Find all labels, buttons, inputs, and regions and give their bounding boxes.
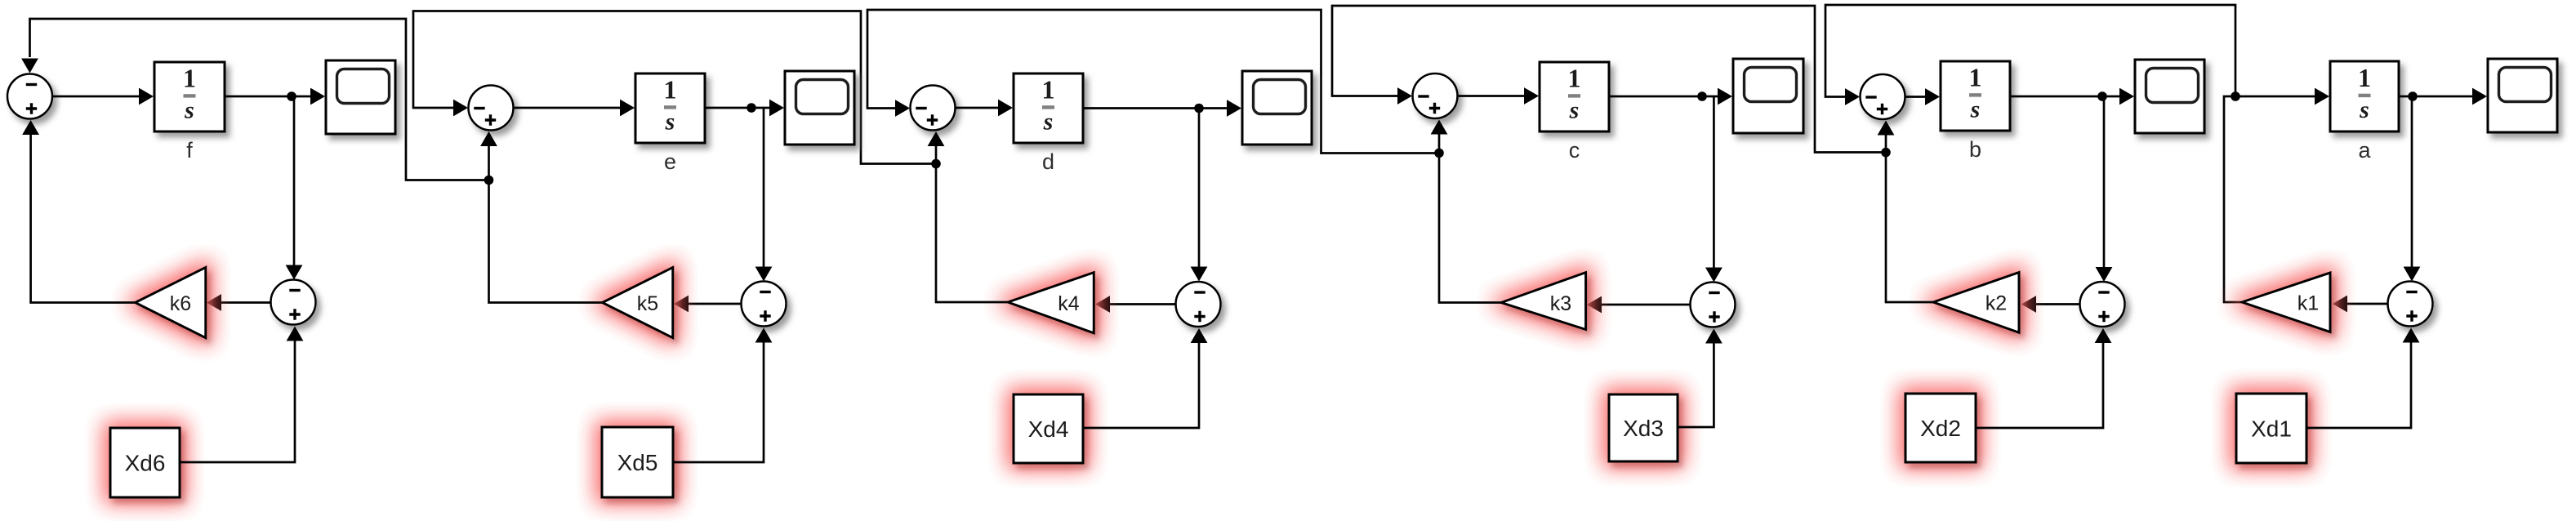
integrator 1/s a <box>2330 61 2399 131</box>
arrowhead into gain k4 <box>1095 296 1110 313</box>
svg-text:1: 1 <box>183 64 196 93</box>
wire sum2 A to gain k1 <box>2344 303 2388 305</box>
arrowhead into scope e <box>769 100 784 117</box>
arrowhead into integrator f <box>139 88 154 105</box>
wire sum E to integrator e <box>514 107 622 109</box>
wire sum2 F to gain k6 <box>219 301 271 304</box>
arrowhead into sum2 B top <box>2096 267 2113 282</box>
gain k3 <box>1501 273 1586 330</box>
wire branch down to sum2 C <box>1713 96 1715 269</box>
arrowhead into sum C bottom <box>1431 120 1448 135</box>
svg-text:1: 1 <box>2358 63 2371 92</box>
arrowhead into sum2 E top <box>755 267 773 282</box>
svg-text:k6: k6 <box>170 292 191 315</box>
scope Scope e <box>785 71 854 145</box>
wire gain k2 to sum B plus <box>1886 133 1933 302</box>
arrowhead into sum E bottom <box>480 131 497 146</box>
arrowhead into sum2 E bottom <box>755 328 773 343</box>
arrowhead into sum2 F bottom <box>287 327 304 341</box>
wire branch down to sum2 D <box>1198 109 1201 269</box>
wire Xd3 to sum2 C plus <box>1678 341 1714 427</box>
arrowhead into sum2 D top <box>1191 267 1208 282</box>
arrowhead into sum B left <box>1845 88 1860 105</box>
sum junction Sum2F <box>271 280 316 325</box>
arrowhead into integrator c <box>1524 87 1539 105</box>
sum junction SumC <box>1413 73 1458 118</box>
gain k1 <box>2242 273 2330 332</box>
svg-text:s: s <box>1569 97 1580 124</box>
scope Scope b <box>2135 60 2204 133</box>
junction k5 riser junction <box>484 176 494 185</box>
svg-text:k5: k5 <box>637 292 658 315</box>
svg-text:s: s <box>1970 96 1981 123</box>
wire feedback k2 to sum C minus <box>1332 6 1886 153</box>
sum junction Sum2A <box>2388 282 2433 327</box>
arrowhead into sum2 C bottom <box>1705 329 1723 344</box>
wire feedback k4 to sum E minus <box>413 11 936 164</box>
gain k4 <box>1008 273 1094 333</box>
arrowhead into sum2 D bottom <box>1191 328 1208 343</box>
wire gain k6 to sum F plus <box>31 133 136 303</box>
constant Xd5 <box>602 427 673 497</box>
arrowhead into sum2 F top <box>286 265 303 280</box>
svg-text:d: d <box>1042 149 1054 174</box>
svg-text:1: 1 <box>1568 64 1581 93</box>
svg-text:s: s <box>2359 96 2369 123</box>
arrowhead into sum D left <box>895 100 910 117</box>
wire sum2 C to gain k3 <box>1598 304 1691 306</box>
integrator 1/s d <box>1014 73 1083 143</box>
wire Xd6 to sum2 F plus <box>180 339 295 462</box>
junction k3 riser junction <box>1434 149 1444 158</box>
svg-text:Xd2: Xd2 <box>1920 416 1961 441</box>
junction after integrator f <box>287 91 296 101</box>
svg-text:s: s <box>184 97 194 124</box>
junction after integrator e <box>747 103 756 113</box>
integrator 1/s f <box>154 62 225 131</box>
arrowhead into scope b <box>2119 88 2134 105</box>
wire integrator b to scope b <box>2010 96 2121 98</box>
wire integrator f to scope f <box>225 96 312 98</box>
arrowhead into sum2 C top <box>1705 268 1723 283</box>
arrowhead into sum D bottom <box>928 131 945 146</box>
constant Xd6 <box>110 428 180 497</box>
arrowhead into gain k5 <box>674 296 689 313</box>
sum junction Sum2D <box>1176 282 1221 327</box>
arrowhead into gain k1 <box>2333 296 2347 313</box>
constant Xd4 <box>1014 394 1083 463</box>
svg-text:Xd1: Xd1 <box>2251 416 2292 442</box>
wire sum C to integrator c <box>1458 95 1526 97</box>
arrowhead into scope a <box>2472 88 2487 105</box>
svg-text:k2: k2 <box>1985 292 2007 315</box>
junction k4 riser junction <box>931 159 941 169</box>
junction k2 riser junction <box>1881 148 1891 158</box>
junction after integrator b <box>2097 91 2107 101</box>
arrowhead into sum2 A top <box>2404 267 2421 282</box>
wire feedback k3 to sum D minus <box>867 10 1439 154</box>
svg-text:a: a <box>2358 138 2371 163</box>
sum junction Sum2E <box>742 282 787 327</box>
arrowhead into scope f <box>310 88 325 105</box>
arrowhead into scope c <box>1718 88 1732 105</box>
svg-text:Xd6: Xd6 <box>125 451 166 476</box>
junction after integrator d <box>1194 104 1204 114</box>
wire branch down to sum2 A <box>2411 96 2413 269</box>
junction after integrator a <box>2408 91 2418 101</box>
wire Xd4 to sum2 D plus <box>1083 341 1199 428</box>
arrowhead into sum E left <box>453 100 468 117</box>
arrowhead into integrator b <box>1925 88 1940 105</box>
wire gain k5 to sum E plus <box>489 144 603 303</box>
arrowhead into sum F bottom <box>22 120 39 135</box>
wire gain k3 to sum C plus <box>1439 132 1501 303</box>
svg-text:k3: k3 <box>1550 292 1571 315</box>
integrator 1/s b <box>1941 61 2010 131</box>
scope Scope d <box>1242 71 1312 145</box>
scope Scope a <box>2488 59 2557 132</box>
wire integrator d to scope d <box>1083 107 1228 109</box>
integrator 1/s c <box>1540 62 1609 131</box>
arrowhead into gain k3 <box>1587 296 1602 314</box>
wire feedback k1 to sum B minus <box>1825 5 2235 97</box>
gain k5 <box>603 267 673 337</box>
scope Scope c <box>1733 59 1803 133</box>
constant Xd1 <box>2236 394 2306 463</box>
integrator 1/s e <box>635 73 705 143</box>
wire Xd1 to sum2 A plus <box>2306 340 2411 428</box>
wire Xd5 to sum2 E plus <box>673 341 764 462</box>
sum junction SumD <box>911 86 956 131</box>
wire integrator e to scope e <box>705 107 771 109</box>
svg-text:k1: k1 <box>2297 292 2319 315</box>
wire feedback k5 to sum F top <box>30 19 489 180</box>
arrowhead into sum B bottom <box>1878 121 1895 136</box>
svg-text:c: c <box>1569 138 1580 163</box>
wire sum B to integrator b <box>1905 96 1928 98</box>
junction after integrator c <box>1697 91 1707 101</box>
sum junction SumB <box>1861 74 1905 119</box>
wire gain k4 to sum D plus <box>936 144 1008 302</box>
svg-text:1: 1 <box>664 75 677 105</box>
wire sum F to integrator f <box>52 96 140 98</box>
wire integrator c to scope c <box>1609 96 1719 98</box>
svg-text:b: b <box>1969 137 1981 162</box>
wire branch down to sum2 E <box>763 108 765 269</box>
svg-text:1: 1 <box>1969 63 1982 92</box>
wire branch down to sum2 F <box>293 96 296 267</box>
arrowhead into scope d <box>1227 100 1241 117</box>
sum junction Sum2B <box>2080 282 2125 327</box>
wire Xd2 to sum2 B plus <box>1976 341 2103 428</box>
arrowhead into sum2 B bottom <box>2095 328 2112 343</box>
junction node before integrator a <box>2231 91 2240 101</box>
arrowhead into gain k6 <box>207 294 221 311</box>
constant Xd2 <box>1905 394 1976 462</box>
wire sum2 D to gain k4 <box>1107 303 1176 305</box>
wire sum D to integrator d <box>956 107 1001 109</box>
svg-text:Xd5: Xd5 <box>617 450 658 475</box>
wire sum2 E to gain k5 <box>686 303 742 305</box>
svg-text:s: s <box>1043 109 1054 136</box>
arrowhead into gain k2 <box>2021 296 2036 313</box>
scope Scope f <box>326 60 395 134</box>
svg-text:k4: k4 <box>1058 292 1080 315</box>
arrowhead into integrator a <box>2315 88 2329 105</box>
svg-text:s: s <box>665 109 675 136</box>
constant Xd3 <box>1609 394 1678 461</box>
gain k6 <box>136 267 206 337</box>
arrowhead into sum F top <box>21 59 38 73</box>
arrowhead into sum C left <box>1397 87 1412 105</box>
sum junction SumE <box>469 86 514 131</box>
svg-text:e: e <box>664 149 676 174</box>
wire integrator a to scope a <box>2399 96 2474 98</box>
arrowhead into integrator e <box>620 100 635 117</box>
wire gain k1 up to integrator a <box>2224 96 2316 302</box>
svg-text:Xd3: Xd3 <box>1623 416 1664 441</box>
svg-text:1: 1 <box>1042 75 1055 105</box>
wire sum2 B to gain k2 <box>2033 303 2080 305</box>
arrowhead into sum2 A bottom <box>2403 328 2420 343</box>
svg-text:f: f <box>186 138 193 163</box>
svg-text:Xd4: Xd4 <box>1028 416 1069 442</box>
sum junction Sum2C <box>1691 283 1736 327</box>
sum junction SumF <box>7 74 52 119</box>
arrowhead into integrator d <box>998 100 1013 117</box>
gain k2 <box>1933 273 2019 333</box>
wire branch down to sum2 B <box>2103 96 2106 269</box>
